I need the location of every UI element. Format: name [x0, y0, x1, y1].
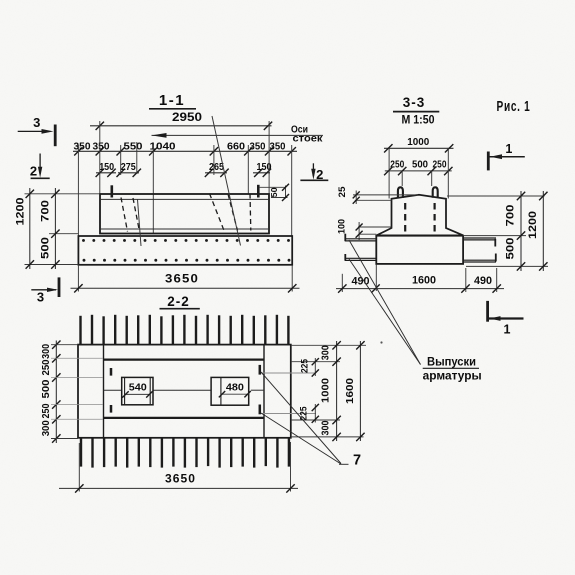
ext slab right edge down 33 — [465, 268, 467, 292]
rebar left lower — [345, 257, 377, 259]
subdim line 265 — [205, 172, 227, 174]
plan division left — [103, 345, 105, 438]
svg-text:700: 700 — [505, 205, 517, 227]
svg-text:500: 500 — [41, 379, 52, 398]
dimension 2950 line — [90, 125, 272, 127]
ext slab left down — [77, 265, 79, 292]
leader 7 A — [261, 372, 341, 464]
svg-text:3-3: 3-3 — [403, 95, 426, 110]
svg-text:3: 3 — [33, 115, 40, 130]
svg-text:300: 300 — [321, 345, 332, 360]
dim arrows 480 — [221, 393, 249, 395]
plan rect 540 — [122, 377, 153, 404]
svg-text:1000: 1000 — [321, 378, 332, 403]
svg-text:2-2: 2-2 — [167, 294, 190, 309]
svg-text:стоек: стоек — [293, 133, 324, 145]
svg-text:350: 350 — [270, 140, 286, 152]
ext slab left edge down — [375, 265, 377, 292]
rebar left upper — [345, 238, 377, 240]
pedestal dashed bar left — [404, 203, 406, 233]
svg-text:М 1:50: М 1:50 — [402, 115, 435, 127]
section mark 3 bottom — [31, 289, 56, 291]
svg-text:50: 50 — [269, 187, 279, 197]
extension x248.3 — [247, 145, 249, 194]
svg-text:540: 540 — [129, 383, 147, 394]
extension hook left — [401, 171, 403, 186]
svg-text:660: 660 — [227, 140, 245, 152]
ext top right — [447, 195, 545, 197]
rebar right upper — [463, 237, 496, 239]
svg-text:150: 150 — [257, 162, 272, 173]
svg-text:2: 2 — [316, 167, 323, 182]
pedestal dashed bar right — [434, 203, 436, 233]
dim 25 lines — [353, 194, 418, 196]
plan beam top edge — [104, 358, 265, 360]
plan rebar teeth bottom — [80, 438, 82, 467]
dashed line B — [133, 198, 140, 232]
leader 7 tail — [339, 463, 349, 465]
svg-text:1600: 1600 — [345, 378, 356, 404]
mini dim 50 — [259, 186, 286, 188]
plan dim line 1600 — [359, 341, 361, 441]
ext y233.7 — [49, 233, 78, 235]
beam top inner line — [100, 198, 269, 200]
plan centerline — [104, 389, 122, 391]
svg-text:350: 350 — [74, 140, 91, 152]
dim arrows 540 — [125, 393, 151, 395]
extension x78 — [77, 145, 79, 236]
ext slab right down — [291, 265, 293, 292]
plan ext 3650 right — [290, 442, 292, 492]
dashed line A — [121, 198, 128, 232]
svg-text:3650: 3650 — [165, 274, 199, 286]
svg-text:3: 3 — [37, 290, 44, 305]
long leader F — [212, 116, 241, 246]
svg-text:1: 1 — [505, 142, 512, 156]
svg-text:1200: 1200 — [527, 211, 539, 239]
dim line 700-500 — [54, 188, 56, 269]
dim 1000 line — [384, 147, 454, 149]
svg-text:1-1: 1-1 — [159, 92, 185, 109]
plan dim line 300-1000-300 — [336, 341, 338, 441]
extension x213.9 — [213, 145, 215, 175]
plan beam bottom edge — [104, 417, 265, 419]
subdim line 150 right — [253, 172, 270, 174]
grey ext right bottom — [261, 413, 316, 415]
plan right ext lines — [291, 344, 366, 346]
rebar hook right — [433, 187, 438, 198]
rebar right lower — [463, 259, 496, 261]
slab rebar dots row 1 — [82, 239, 85, 242]
svg-text:275: 275 — [121, 162, 136, 173]
section mark 3 top — [18, 130, 49, 132]
svg-text:250: 250 — [41, 359, 52, 375]
subdim line 150 left — [96, 172, 116, 174]
svg-text:1: 1 — [504, 323, 511, 337]
ext 490 left — [341, 274, 343, 292]
extension x153.3 — [152, 145, 154, 233]
svg-text:3650: 3650 — [165, 474, 196, 486]
plan division right — [263, 345, 265, 438]
svg-text:350: 350 — [93, 140, 110, 152]
svg-text:300: 300 — [41, 344, 52, 359]
dim 3650 line — [71, 287, 300, 289]
beam bottom inner line — [100, 228, 269, 230]
plan bar right top — [259, 365, 262, 375]
plan left dim line — [55, 341, 57, 444]
dashed line D — [210, 194, 225, 231]
leader vypuski A — [349, 240, 421, 365]
dim line 490-1600-490 — [336, 288, 504, 290]
plan rect 480 — [211, 377, 249, 405]
vypuski underline — [423, 367, 479, 369]
plan bar left top — [110, 368, 113, 376]
svg-text:500: 500 — [505, 238, 517, 260]
svg-text:550: 550 — [124, 140, 143, 152]
extension x291.7 — [291, 145, 293, 236]
plan ext 3650 left — [78, 443, 80, 492]
svg-text:25: 25 — [337, 186, 348, 198]
svg-text:7: 7 — [353, 453, 361, 469]
svg-text:500: 500 — [412, 159, 428, 170]
section mark 1 top — [487, 152, 490, 171]
svg-text:225: 225 — [300, 359, 310, 373]
svg-text:Рис. 1: Рис. 1 — [497, 99, 531, 115]
extension x99.8 — [99, 121, 101, 194]
svg-text:490: 490 — [474, 275, 492, 287]
slab outline 1-1 — [78, 236, 292, 265]
svg-text:2: 2 — [30, 164, 37, 179]
pedestal outline — [377, 195, 464, 236]
svg-text:1200: 1200 — [15, 198, 27, 226]
dim 100 lines — [358, 226, 392, 228]
thin line C — [138, 200, 142, 247]
extension 3-3 right — [447, 148, 449, 198]
slab rebar dots row 2 — [83, 259, 86, 262]
svg-text:250: 250 — [41, 403, 52, 418]
extension x136.8 — [136, 142, 138, 174]
section mark 2 right — [312, 163, 314, 176]
ext rebar right down — [496, 268, 498, 292]
svg-text:2950: 2950 — [172, 112, 202, 124]
svg-text:Выпуски: Выпуски — [427, 357, 476, 369]
grey ext right top — [261, 372, 316, 374]
dim line 700-500 right — [520, 191, 522, 271]
svg-text:300: 300 — [41, 420, 52, 436]
svg-text:1000: 1000 — [407, 137, 429, 148]
leader osi stoek — [152, 134, 324, 136]
svg-text:500: 500 — [40, 237, 52, 259]
rebar bar right — [257, 185, 260, 198]
beam outline 1-1 — [100, 194, 269, 234]
dashed line G — [249, 194, 252, 231]
plan dim 225 bottom — [314, 404, 316, 423]
plan dim 3650 line — [59, 487, 298, 489]
plan bar left bottom — [110, 405, 113, 413]
dim line 1200 right — [542, 191, 544, 271]
plan rebar teeth top — [79, 316, 81, 345]
svg-text:150: 150 — [99, 162, 114, 173]
ext slab top right — [463, 235, 526, 237]
leader 7 B — [261, 413, 341, 464]
plan left ext lines — [51, 344, 78, 346]
ext y193.8 — [25, 193, 100, 195]
svg-text:700: 700 — [40, 200, 52, 222]
leader vypuski B — [349, 259, 421, 365]
slab outline 3-3 — [376, 236, 463, 264]
ext slab bottom right — [466, 265, 548, 267]
chain dimension line 1-1 — [73, 150, 297, 152]
subdim line 275 — [118, 172, 139, 174]
extension 3-3 left — [388, 148, 390, 198]
speck dot — [380, 341, 382, 343]
section mark 2 left — [39, 154, 41, 175]
plan outer rect — [78, 345, 291, 438]
plan dim 225 top — [314, 358, 316, 376]
svg-text:350: 350 — [250, 140, 266, 152]
svg-text:арматуры: арматуры — [423, 370, 482, 382]
extension x120.7 — [120, 145, 122, 175]
rebar hook left — [398, 187, 403, 198]
extension x269.1 — [268, 121, 270, 194]
ext y264.5 — [25, 264, 79, 266]
svg-text:250: 250 — [390, 159, 404, 170]
svg-text:1600: 1600 — [412, 275, 436, 287]
svg-text:480: 480 — [226, 383, 244, 394]
extension hook right — [431, 171, 433, 186]
svg-text:300: 300 — [321, 420, 332, 435]
svg-text:100: 100 — [337, 219, 348, 234]
plan bar right bottom — [259, 405, 262, 415]
rebar bar left — [111, 185, 114, 197]
dashed line E — [228, 194, 238, 231]
section mark 1 bottom — [486, 301, 489, 322]
dim line 1200 — [29, 188, 31, 269]
svg-text:225: 225 — [299, 407, 309, 421]
dim 250-500-250 line — [385, 170, 452, 172]
